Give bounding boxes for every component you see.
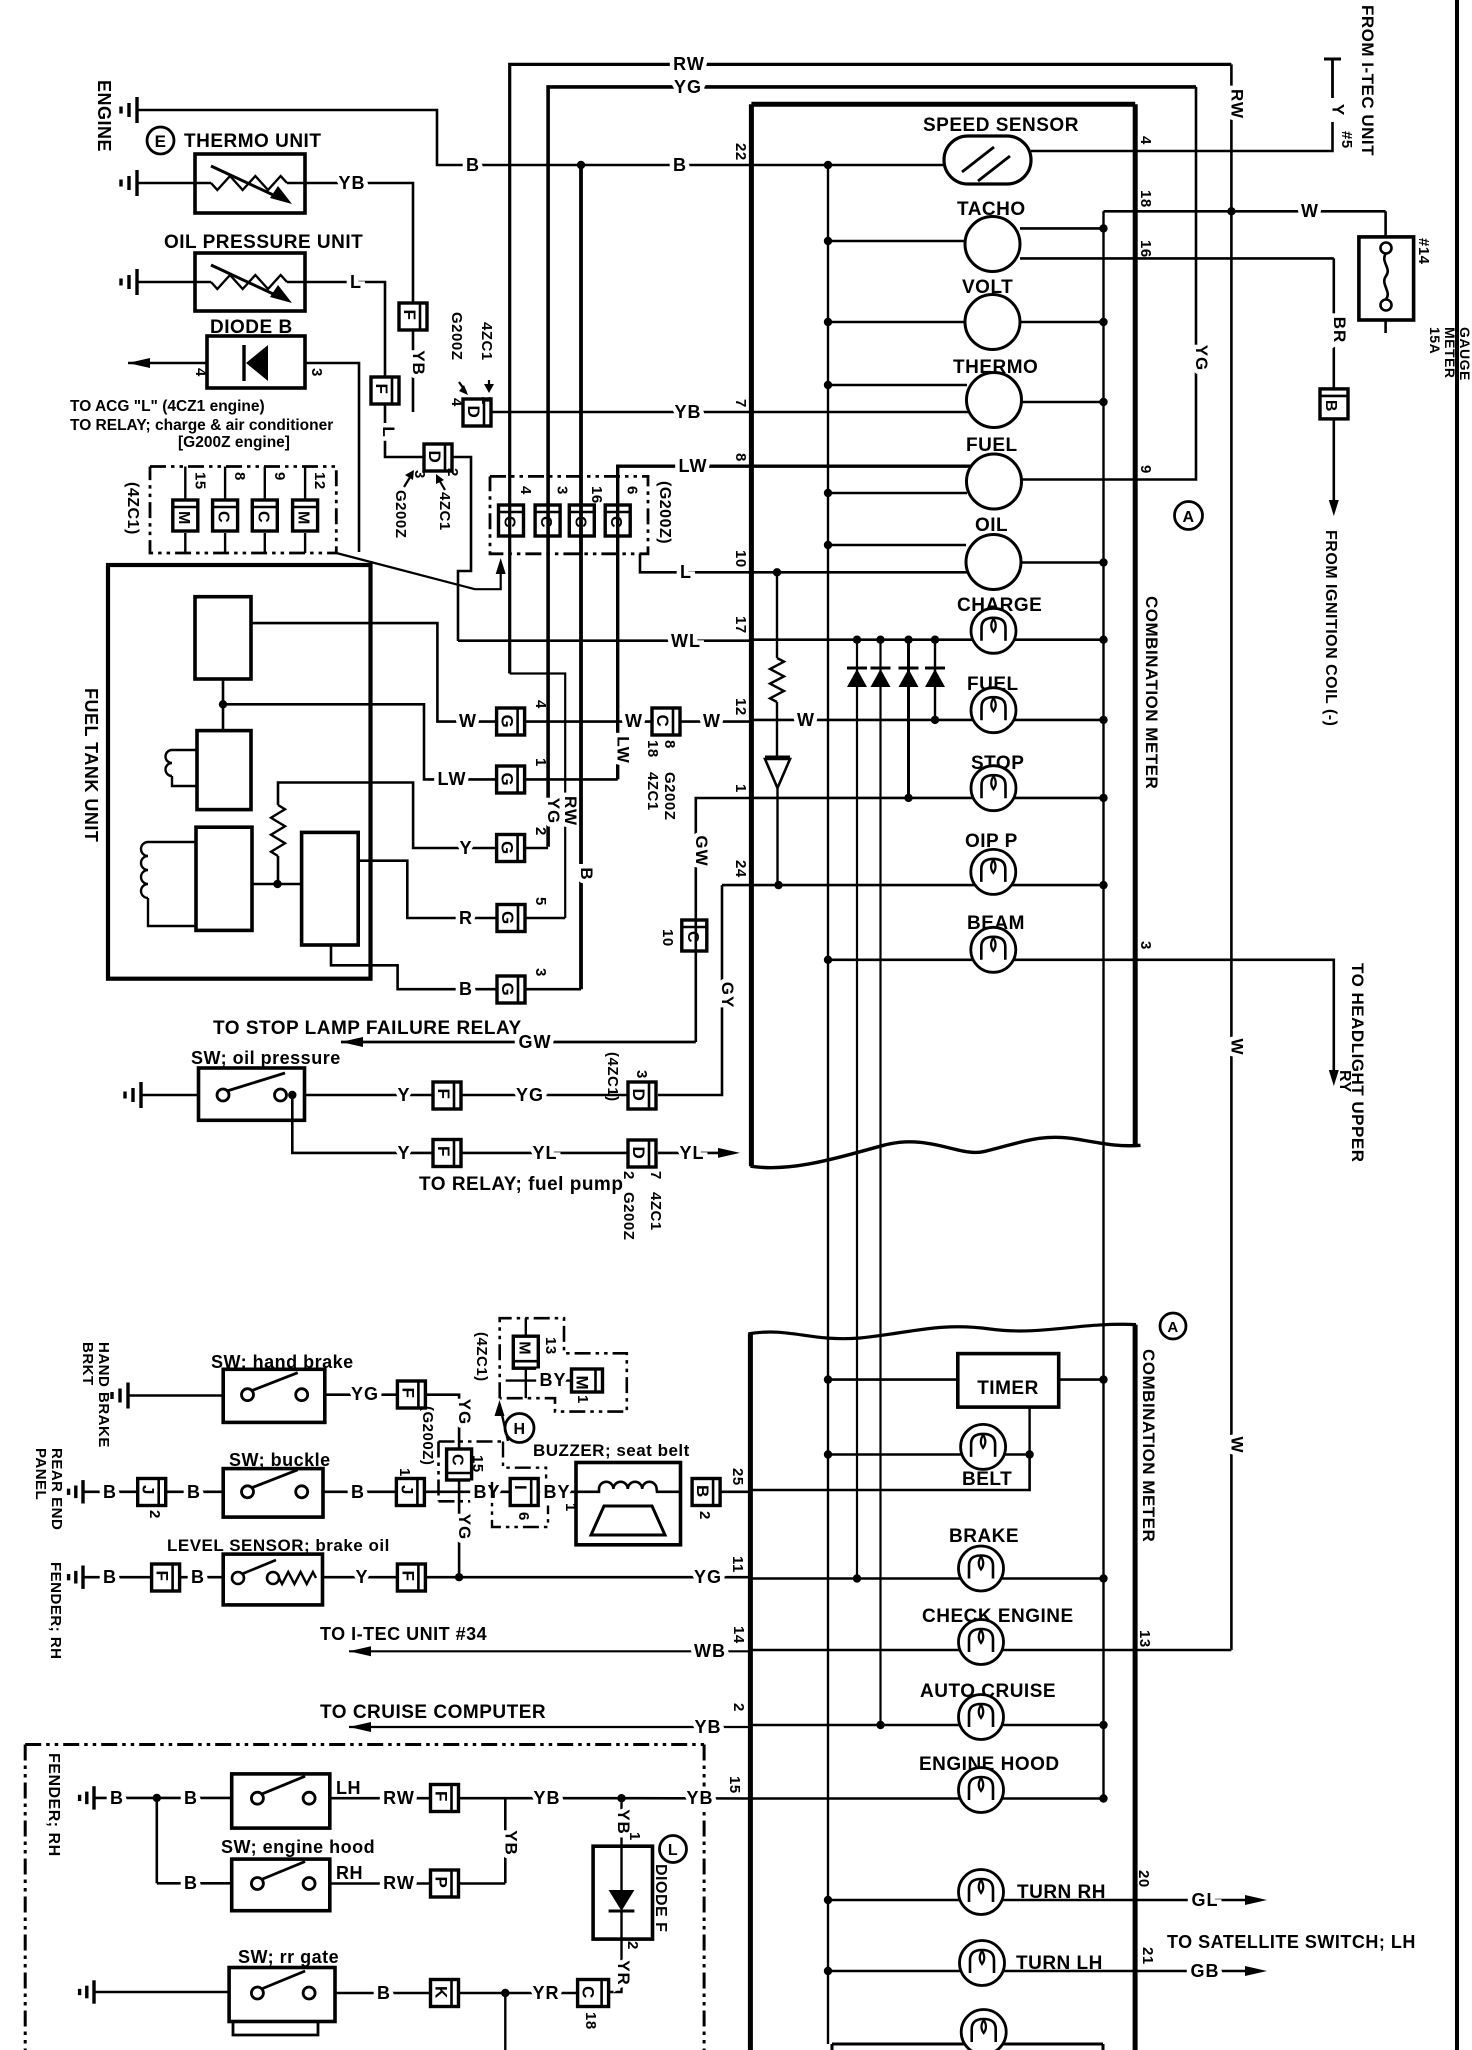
wire B from G3 up trunk: [525, 988, 581, 991]
connector F engine hood: [431, 1785, 459, 1812]
svg-text:B: B: [377, 1983, 391, 2003]
svg-text:12: 12: [311, 472, 328, 490]
svg-text:L: L: [379, 426, 398, 437]
dash-dot box fender: [25, 1743, 704, 1746]
circle L: [660, 1836, 687, 1863]
wire YB arrow cruise: [349, 1726, 752, 1728]
svg-text:#14: #14: [1415, 238, 1432, 265]
svg-text:FENDER; RH: FENDER; RH: [45, 1753, 62, 1857]
svg-text:TO CRUISE COMPUTER: TO CRUISE COMPUTER: [320, 1702, 546, 1723]
svg-text:M: M: [295, 511, 312, 525]
svg-text:B: B: [187, 1482, 201, 1502]
svg-text:GB: GB: [1191, 1961, 1220, 1981]
TIMER box: [958, 1354, 1059, 1408]
connector F level sensor right: [397, 1564, 425, 1591]
svg-text:BRKT: BRKT: [79, 1342, 96, 1386]
node YB diode junction: [617, 1794, 625, 1802]
fuel tank box4: [302, 832, 359, 945]
svg-text:W: W: [797, 710, 815, 730]
svg-text:W: W: [459, 711, 477, 731]
wire W to meter pin 12: [680, 720, 752, 723]
svg-text:G200Z: G200Z: [392, 490, 409, 538]
svg-text:D: D: [629, 1089, 648, 1102]
svg-text:DIODE F: DIODE F: [652, 1864, 669, 1932]
wire YB down to D connector: [412, 330, 415, 412]
four diodes: [853, 636, 861, 644]
wire B to buckle: [166, 1491, 224, 1494]
svg-text:TIMER: TIMER: [977, 1378, 1039, 1399]
connector G 1: [497, 766, 525, 793]
wire BY to buzzer: [540, 1491, 576, 1494]
wire L to meter pin 10: [640, 554, 968, 573]
connector C 16 in G200Z group: [569, 505, 594, 536]
svg-text:8: 8: [732, 453, 749, 462]
svg-text:F: F: [434, 1146, 453, 1157]
svg-text:4ZC1: 4ZC1: [647, 1192, 664, 1231]
svg-text:B: B: [693, 1485, 712, 1498]
combination meter box right edge: [1133, 104, 1138, 1147]
svg-text:6: 6: [515, 1512, 532, 1521]
svg-text:B: B: [103, 1567, 117, 1587]
svg-text:4: 4: [192, 368, 209, 377]
svg-text:ENGINE: ENGINE: [94, 80, 114, 152]
wire pin25 to belt: [752, 1455, 1030, 1491]
svg-text:4ZC1: 4ZC1: [436, 492, 453, 531]
svg-text:L: L: [680, 562, 692, 582]
connector F on YL: [433, 1140, 461, 1167]
svg-text:F: F: [398, 1571, 417, 1582]
svg-text:F: F: [400, 310, 419, 321]
connector B on BR: [1320, 389, 1348, 419]
FUEL TANK UNIT box: [108, 565, 371, 979]
wire W from box1: [251, 623, 497, 722]
svg-text:1: 1: [732, 784, 749, 793]
connector D on YB line: [463, 399, 491, 426]
wavy break line bottom of section1: [751, 1137, 1141, 1167]
fuse 14 meter gauge: [1384, 211, 1387, 237]
svg-text:LW: LW: [614, 736, 633, 764]
svg-text:W: W: [1227, 1038, 1246, 1055]
svg-text:(4ZC1): (4ZC1): [124, 482, 141, 535]
svg-text:F: F: [398, 1388, 417, 1399]
svg-text:RW: RW: [383, 1788, 415, 1808]
wire B from rr gate: [335, 1992, 431, 1995]
svg-text:GY: GY: [718, 982, 737, 1009]
svg-text:SPEED SENSOR: SPEED SENSOR: [923, 115, 1079, 136]
wire B trunk IC16: [579, 165, 583, 989]
svg-text:YR: YR: [532, 1983, 559, 2003]
SW engine hood box LH: [232, 1774, 330, 1828]
wire to thermo unit: [137, 182, 211, 185]
level sensor box: [223, 1554, 322, 1605]
svg-text:L: L: [350, 272, 362, 292]
inner right bus: [1102, 211, 1104, 1798]
connector group G200Z dashed box: [490, 476, 648, 553]
svg-text:(G200Z): (G200Z): [656, 481, 673, 544]
connector F level sensor left: [152, 1564, 180, 1591]
svg-text:B: B: [191, 1567, 205, 1587]
svg-text:21: 21: [1139, 1947, 1156, 1965]
svg-text:5: 5: [532, 897, 549, 906]
svg-text:W: W: [703, 711, 721, 731]
svg-text:W: W: [625, 711, 643, 731]
svg-text:(G200Z): (G200Z): [419, 1406, 436, 1465]
SW engine hood box RH: [232, 1859, 330, 1911]
svg-text:J: J: [397, 1485, 416, 1495]
thermistor symbol oil: [211, 275, 287, 289]
svg-text:3: 3: [532, 968, 549, 977]
resistor and diode chain inside meter: [773, 568, 781, 576]
connector G 2: [497, 835, 525, 862]
svg-text:15: 15: [469, 1455, 486, 1473]
connector D2 on L: [424, 444, 452, 471]
svg-text:4ZC1: 4ZC1: [644, 772, 661, 811]
connector J 1: [396, 1479, 424, 1506]
svg-text:B: B: [184, 1873, 198, 1893]
inner left bus: [827, 164, 829, 2044]
wire L from oil unit: [287, 282, 385, 377]
connector K: [431, 1980, 459, 2007]
node box1 bottom junction: [222, 679, 225, 731]
wire L down to D connector: [385, 404, 424, 457]
connector F hand brake: [397, 1381, 425, 1408]
connector group 4ZC1 dashed box: [150, 467, 336, 554]
wire Y to F: [305, 1094, 434, 1097]
oil pressure unit box: [195, 253, 305, 311]
meter section2 left edge: [748, 1334, 753, 2050]
wire YR from diode F to C18: [609, 1939, 622, 1992]
wire LW from box1 junction: [223, 704, 497, 779]
page border right edge: [1455, 0, 1459, 2050]
svg-text:M: M: [515, 1341, 532, 1355]
wire RW LH: [330, 1797, 431, 1800]
SW buckle box: [223, 1469, 323, 1518]
ground ENGINE: [135, 97, 138, 123]
svg-text:LH: LH: [336, 1778, 361, 1798]
svg-text:RY: RY: [1336, 1070, 1353, 1093]
connector M/C 9 in 4ZC1 group: [264, 467, 266, 501]
svg-text:W: W: [1301, 201, 1319, 221]
buzzer box: [576, 1463, 681, 1545]
connector C 8-18: [652, 708, 680, 735]
svg-text:GL: GL: [1192, 1890, 1219, 1910]
node K output junction: [501, 1989, 509, 1997]
svg-text:1: 1: [532, 758, 549, 767]
lamp TURN RH: [828, 1899, 1135, 1902]
svg-text:4: 4: [517, 486, 534, 495]
svg-text:18: 18: [644, 740, 661, 758]
svg-text:WL: WL: [671, 631, 701, 651]
svg-text:BELT: BELT: [962, 1469, 1012, 1490]
svg-text:BY: BY: [473, 1482, 500, 1502]
svg-text:YL: YL: [532, 1143, 557, 1163]
svg-text:TURN RH: TURN RH: [1017, 1882, 1106, 1903]
wire W from G4 to C connector: [525, 720, 652, 723]
svg-text:10: 10: [659, 929, 676, 947]
meter section2 wavy top: [748, 1324, 1136, 1338]
svg-text:7: 7: [732, 399, 749, 408]
wire timer left: [828, 1378, 958, 1381]
svg-text:YB: YB: [694, 1717, 721, 1737]
wire GB arrow: [1135, 1970, 1246, 1972]
svg-text:K: K: [432, 1986, 451, 1999]
wire YL branch down: [292, 1095, 433, 1153]
svg-text:13: 13: [542, 1337, 559, 1355]
wire WL to meter pin 17: [458, 639, 752, 642]
svg-text:B: B: [459, 979, 473, 999]
svg-text:W: W: [1227, 1436, 1246, 1453]
connector M 1: [572, 1369, 603, 1392]
svg-text:Y: Y: [355, 1567, 368, 1587]
svg-text:Y: Y: [397, 1143, 410, 1163]
svg-text:2: 2: [444, 468, 461, 477]
wire LW trunk IC6: [618, 466, 972, 779]
svg-text:4: 4: [448, 398, 465, 407]
svg-text:16: 16: [588, 486, 605, 504]
ground hand brake: [126, 1383, 129, 1409]
wire from D2 to WL: [452, 457, 471, 641]
svg-text:C: C: [653, 715, 672, 728]
svg-text:TO I-TEC UNIT #34: TO I-TEC UNIT #34: [320, 1624, 487, 1644]
wire GW up to meter pin 1: [696, 798, 752, 1042]
svg-text:YG: YG: [674, 77, 702, 97]
svg-text:12: 12: [732, 698, 749, 716]
svg-text:F: F: [372, 384, 391, 395]
connector C 4 in G200Z group: [499, 505, 524, 536]
svg-text:G: G: [498, 911, 517, 925]
connector D 7-2: [628, 1140, 656, 1167]
svg-text:B: B: [577, 867, 596, 880]
svg-text:4ZC1: 4ZC1: [478, 322, 495, 361]
node junction B to IC16: [577, 161, 585, 169]
svg-text:B: B: [1322, 400, 1339, 412]
connector C 6 in G200Z group: [605, 505, 630, 536]
svg-text:YL: YL: [679, 1143, 704, 1163]
svg-text:PANEL: PANEL: [32, 1448, 49, 1500]
connector C 15: [447, 1449, 472, 1480]
svg-text:BR: BR: [1330, 317, 1349, 344]
svg-text:YR: YR: [614, 1960, 633, 1986]
svg-text:G200Z: G200Z: [448, 312, 465, 360]
svg-text:COMBINATION METER: COMBINATION METER: [1142, 596, 1161, 789]
wire R from box4: [358, 861, 497, 918]
node junction B at meter bus: [824, 161, 832, 169]
svg-text:GAUGE: GAUGE: [1457, 327, 1472, 381]
svg-text:25: 25: [729, 1468, 746, 1486]
svg-text:16: 16: [1137, 240, 1154, 258]
svg-text:G: G: [498, 773, 517, 787]
svg-text:2: 2: [624, 1941, 641, 1950]
svg-text:17: 17: [732, 616, 749, 634]
wire RW trunk: [510, 64, 1232, 673]
wire Y from level sensor: [323, 1576, 398, 1579]
wire timer right: [1059, 1378, 1104, 1381]
svg-text:13: 13: [1136, 1630, 1153, 1648]
thermo unit box: [195, 154, 305, 213]
svg-text:YG: YG: [351, 1384, 379, 1404]
svg-text:D: D: [464, 406, 483, 419]
svg-text:OIL: OIL: [975, 515, 1008, 536]
svg-text:YB: YB: [674, 402, 701, 422]
svg-text:G200Z: G200Z: [661, 772, 678, 820]
svg-text:L: L: [668, 1842, 678, 1859]
connector I 6: [510, 1479, 538, 1506]
svg-text:C: C: [579, 1986, 598, 1999]
svg-text:20: 20: [1135, 1870, 1152, 1888]
svg-text:3: 3: [633, 1070, 650, 1079]
svg-text:8: 8: [661, 740, 678, 749]
svg-text:24: 24: [732, 860, 749, 878]
connector C 10 on GW: [682, 920, 707, 951]
wire B from box4: [331, 945, 497, 989]
svg-text:I: I: [511, 1485, 530, 1490]
wire YG trunk: [548, 87, 1196, 847]
connector M/C 12 in 4ZC1 group: [304, 467, 306, 501]
circle E: [147, 127, 174, 154]
svg-text:3: 3: [554, 486, 571, 495]
wire RW from G5 up trunk: [525, 917, 565, 920]
svg-text:E: E: [155, 132, 167, 151]
SW oil pressure box: [199, 1068, 305, 1120]
wire YG down to level sensor line: [458, 1479, 461, 1577]
svg-text:FROM I-TEC UNIT: FROM I-TEC UNIT: [1358, 5, 1377, 156]
svg-text:GW: GW: [519, 1032, 552, 1052]
wire GY from D3 up to pin 24 line: [658, 885, 722, 1095]
wire GW with arrow: [341, 1041, 696, 1044]
svg-text:15: 15: [191, 472, 208, 490]
connector M/C 15 in 4ZC1 group: [184, 467, 186, 501]
wire WB arrow: [349, 1650, 752, 1652]
circle A section2: [1160, 1313, 1186, 1339]
svg-text:F: F: [153, 1571, 172, 1582]
svg-text:GW: GW: [692, 835, 711, 866]
ground SW oil pressure: [139, 1082, 142, 1108]
svg-text:M: M: [573, 1376, 592, 1391]
wire YG right side down to fuel gauge pin 9: [1022, 87, 1197, 480]
node RW-W junction: [1227, 207, 1235, 215]
svg-text:10: 10: [732, 550, 749, 568]
svg-text:[G200Z engine]: [G200Z engine]: [178, 434, 290, 451]
svg-text:22: 22: [732, 143, 749, 161]
diode at x=857: [847, 667, 867, 670]
DIODE F box: [593, 1846, 652, 1939]
svg-text:2: 2: [532, 827, 549, 836]
svg-text:TO RELAY; fuel pump: TO RELAY; fuel pump: [419, 1174, 623, 1195]
svg-text:YB: YB: [501, 1830, 520, 1856]
wire RW RH: [330, 1882, 431, 1885]
thermistor symbol thermo: [211, 176, 287, 190]
svg-text:2: 2: [146, 1510, 163, 1519]
coil at box2: [172, 749, 197, 751]
connector J 2: [138, 1479, 166, 1506]
svg-text:7: 7: [647, 1171, 664, 1180]
svg-text:Y: Y: [397, 1085, 410, 1105]
connector M 13: [525, 1318, 527, 1336]
wire BY to I6: [424, 1491, 510, 1494]
wire YL to D: [461, 1152, 628, 1155]
wire pin18 W line to fuse: [1104, 210, 1386, 213]
lamp BELT: [828, 1453, 1030, 1456]
wire B from engine ground to speed sensor: [137, 110, 944, 165]
wire BY from M13: [525, 1368, 527, 1398]
annotation diagonal from 4ZC1 group to G200Z group: [336, 553, 500, 589]
wire from P to YB corner: [459, 1882, 506, 1885]
svg-text:18: 18: [582, 2012, 599, 2030]
wire YR to C18: [459, 1992, 578, 1995]
svg-text:B: B: [184, 1788, 198, 1808]
wire B to engine hood RH: [157, 1882, 232, 1885]
svg-text:SW; engine hood: SW; engine hood: [221, 1837, 375, 1857]
ground thermo: [135, 170, 138, 196]
svg-text:1: 1: [478, 396, 495, 405]
diode inside meter: [765, 756, 790, 759]
connector F on L: [371, 377, 399, 404]
svg-text:RH: RH: [336, 1863, 363, 1883]
wire BEAM pin3 to headlight upper: [1135, 960, 1334, 1080]
wire B to level sensor: [180, 1576, 224, 1579]
svg-text:YG: YG: [455, 1399, 474, 1426]
svg-text:B: B: [673, 155, 687, 175]
svg-text:B: B: [351, 1482, 365, 1502]
speed sensor symbol: [944, 136, 1031, 184]
svg-text:YB: YB: [338, 173, 365, 193]
svg-text:J: J: [139, 1485, 158, 1495]
wire speed sensor pin4 to I-TEC Y stub: [1031, 122, 1333, 151]
bottom lamp partial: [832, 2043, 1103, 2046]
SW rr gate box: [229, 1968, 335, 2022]
diode B box: [207, 336, 305, 388]
ground level sensor: [81, 1566, 84, 1589]
svg-text:F: F: [434, 1089, 453, 1100]
fuel tank box1: [195, 597, 251, 679]
svg-text:B: B: [110, 1788, 124, 1808]
coil at box3: [148, 841, 196, 843]
svg-text:C: C: [537, 516, 554, 528]
svg-text:OIL PRESSURE UNIT: OIL PRESSURE UNIT: [164, 232, 363, 253]
svg-text:YG: YG: [1192, 345, 1211, 372]
svg-text:15A: 15A: [1427, 327, 1443, 354]
wire YB to meter pin 7: [492, 411, 752, 414]
node engine hood ground branch: [153, 1794, 161, 1802]
svg-text:YG: YG: [694, 1567, 722, 1587]
connector G 5: [497, 905, 525, 932]
svg-text:2: 2: [730, 1703, 747, 1712]
svg-text:BY: BY: [539, 1370, 566, 1390]
svg-text:LEVEL SENSOR; brake oil: LEVEL SENSOR; brake oil: [167, 1536, 390, 1555]
svg-text:YB: YB: [533, 1788, 560, 1808]
wire timer bottom to belt: [1028, 1407, 1030, 1454]
svg-text:CHECK ENGINE: CHECK ENGINE: [922, 1606, 1074, 1627]
svg-text:YG: YG: [544, 798, 563, 825]
svg-text:F: F: [432, 1791, 451, 1802]
svg-text:Y: Y: [1329, 104, 1348, 116]
svg-text:9: 9: [1137, 465, 1154, 474]
ground buckle row: [81, 1480, 84, 1503]
wire to meter pin 25: [720, 1491, 752, 1494]
svg-text:BY: BY: [543, 1482, 570, 1502]
svg-text:15: 15: [726, 1776, 743, 1794]
svg-text:C: C: [215, 511, 232, 523]
wire YB junction: [459, 1797, 622, 1800]
svg-text:1: 1: [574, 1395, 591, 1404]
svg-text:B: B: [466, 155, 480, 175]
wire YG to meter pin 11: [425, 1576, 752, 1579]
svg-text:G: G: [498, 841, 517, 855]
svg-text:RW: RW: [383, 1873, 415, 1893]
wire YB down to diode F: [620, 1798, 622, 1846]
svg-text:D: D: [425, 451, 444, 464]
svg-text:R: R: [459, 908, 473, 928]
